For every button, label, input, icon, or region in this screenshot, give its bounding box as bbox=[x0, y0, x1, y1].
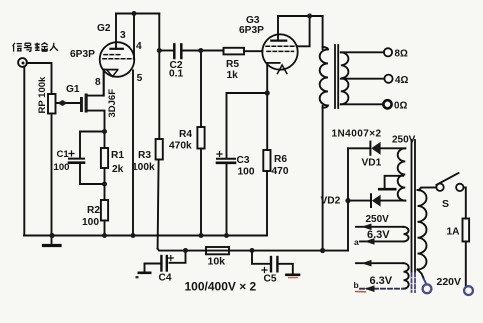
svg-text:C1: C1 bbox=[57, 149, 70, 160]
svg-text:470: 470 bbox=[272, 166, 289, 177]
svg-text:1N4007×2: 1N4007×2 bbox=[332, 129, 382, 140]
svg-text:4Ω: 4Ω bbox=[395, 75, 408, 86]
svg-text:RP 100k: RP 100k bbox=[37, 76, 48, 114]
svg-text:100/400V × 2: 100/400V × 2 bbox=[185, 280, 257, 294]
svg-text:100: 100 bbox=[238, 167, 255, 178]
svg-text:1A: 1A bbox=[447, 227, 461, 238]
svg-text:G1: G1 bbox=[66, 84, 80, 95]
svg-text:6.3V: 6.3V bbox=[367, 229, 390, 241]
svg-text:R1: R1 bbox=[111, 150, 124, 161]
svg-text:VD1: VD1 bbox=[362, 158, 382, 169]
svg-text:250V: 250V bbox=[366, 214, 390, 225]
svg-text:470k: 470k bbox=[169, 141, 192, 152]
svg-text:G2: G2 bbox=[97, 23, 111, 34]
svg-text:a: a bbox=[354, 237, 359, 247]
svg-text:VD2: VD2 bbox=[321, 196, 341, 207]
svg-text:C4: C4 bbox=[159, 273, 172, 284]
svg-text:S: S bbox=[442, 198, 449, 210]
svg-text:R3: R3 bbox=[138, 150, 151, 161]
svg-text:0Ω: 0Ω bbox=[394, 101, 407, 112]
svg-text:100: 100 bbox=[54, 162, 70, 173]
svg-text:100: 100 bbox=[82, 217, 99, 228]
svg-text:3DJ6F: 3DJ6F bbox=[107, 89, 118, 118]
svg-text:R4: R4 bbox=[179, 129, 192, 140]
svg-text:6P3P: 6P3P bbox=[239, 25, 264, 36]
svg-text:R2: R2 bbox=[87, 205, 100, 216]
svg-text:100k: 100k bbox=[132, 162, 155, 173]
svg-text:0.1: 0.1 bbox=[169, 69, 183, 80]
svg-text:C5: C5 bbox=[264, 274, 277, 285]
svg-text:8Ω: 8Ω bbox=[395, 49, 408, 60]
svg-text:6P3P: 6P3P bbox=[70, 49, 95, 60]
svg-text:R6: R6 bbox=[274, 154, 287, 165]
svg-text:250V: 250V bbox=[392, 135, 416, 146]
svg-text:b: b bbox=[354, 280, 359, 290]
svg-text:8: 8 bbox=[95, 77, 101, 88]
svg-text:6.3V: 6.3V bbox=[370, 275, 393, 287]
svg-text:5: 5 bbox=[137, 73, 143, 84]
svg-text:3: 3 bbox=[120, 30, 126, 41]
svg-text:4: 4 bbox=[136, 41, 142, 52]
svg-text:10k: 10k bbox=[208, 256, 226, 268]
svg-text:C3: C3 bbox=[237, 155, 250, 166]
svg-text:2k: 2k bbox=[112, 164, 124, 175]
svg-text:R5: R5 bbox=[226, 59, 239, 70]
svg-text:220V: 220V bbox=[437, 276, 462, 288]
svg-text:1k: 1k bbox=[227, 70, 239, 81]
